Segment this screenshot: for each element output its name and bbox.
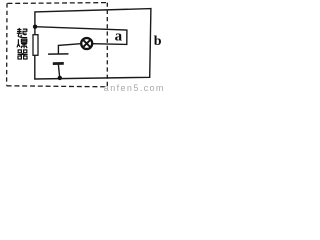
svg-text:anfen5.com: anfen5.com bbox=[104, 83, 164, 91]
svg-text:a: a bbox=[115, 29, 123, 45]
svg-text:b: b bbox=[154, 34, 162, 49]
